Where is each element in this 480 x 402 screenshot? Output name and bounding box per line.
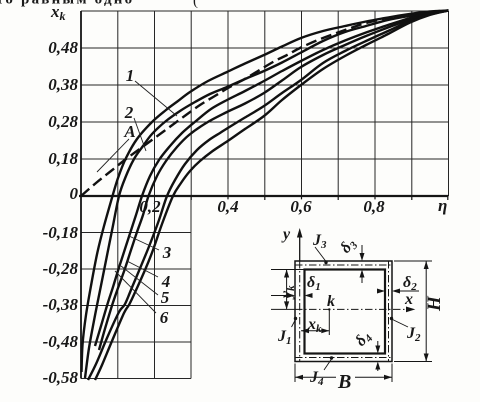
svg-text:-0,28: -0,28 [43, 259, 79, 278]
y axis value labels [43, 38, 79, 387]
svg-text:0,4: 0,4 [217, 197, 238, 216]
svg-text:0: 0 [70, 184, 79, 203]
x-axis eta [79, 195, 449, 197]
curve 6 [95, 11, 449, 381]
cropped text line at very top [0, 0, 198, 9]
inset labels [277, 226, 445, 393]
B dimension [295, 364, 392, 383]
axes [79, 11, 449, 379]
k point dot [328, 308, 330, 310]
svg-text:то равным одно: то равным одно [0, 0, 134, 8]
svg-text:H: H [424, 295, 445, 312]
svg-text:B: B [337, 371, 351, 393]
J dots on walls [324, 261, 327, 264]
axis ticks [191, 196, 448, 200]
box section outer wall [295, 261, 392, 362]
x axis centerline through k [295, 308, 406, 310]
svg-text:y: y [281, 226, 291, 243]
x axis extension left of box for y_k dim [271, 308, 295, 310]
leader line 6 [115, 271, 156, 313]
delta3 dimension arrows [361, 245, 363, 259]
delta4 dimension arrows [377, 341, 379, 352]
svg-text:η: η [438, 196, 447, 215]
grid group [81, 11, 449, 379]
svg-text:-0,58: -0,58 [43, 368, 79, 387]
wire: right frame [448, 11, 450, 196]
J leader lines [315, 247, 326, 262]
curve number labels [123, 66, 171, 327]
right wall centerline [388, 261, 390, 362]
curve A dashed [81, 11, 449, 197]
svg-text:-0,18: -0,18 [43, 223, 79, 242]
delta2 dimension arrows [394, 290, 419, 292]
svg-text:0,48: 0,48 [48, 38, 78, 57]
y axis of inset [299, 232, 301, 261]
delta1 dimension arrows [271, 295, 293, 297]
wire: upper grid verticals [118, 11, 412, 196]
bottom wall centerline [295, 357, 392, 359]
wall centerlines dash-dot [295, 261, 406, 362]
top wall centerline [295, 264, 392, 266]
curve 4 [99, 11, 449, 351]
curve 3 [95, 11, 449, 347]
curve 1 [82, 11, 449, 373]
svg-text:0,6: 0,6 [290, 197, 312, 216]
box section inner wall [305, 270, 386, 354]
svg-text:5: 5 [161, 288, 170, 307]
svg-text:3: 3 [162, 243, 172, 262]
svg-text:k: k [327, 293, 335, 310]
svg-text:-0,38: -0,38 [43, 295, 79, 314]
leader line 4 [127, 261, 158, 277]
extension from inner top surface to left [271, 269, 305, 271]
x_k dimension [301, 309, 329, 335]
svg-text:0,38: 0,38 [48, 75, 78, 94]
svg-text:0,8: 0,8 [363, 197, 385, 216]
leader line 2 [134, 118, 146, 151]
svg-text:0,18: 0,18 [48, 149, 78, 168]
leader line 5 [121, 266, 158, 295]
x axis value labels [139, 197, 385, 216]
wire: lower grid verticals [118, 196, 191, 379]
svg-text:-0,48: -0,48 [43, 332, 79, 351]
leader line 1 [135, 81, 177, 116]
H dimension [394, 261, 432, 362]
leader line A [97, 139, 129, 172]
wire: lower grid horizontals [81, 233, 191, 379]
curve 2 [85, 11, 449, 379]
svg-text:x: x [404, 291, 413, 308]
svg-text:(: ( [193, 0, 198, 9]
left wall centerline [299, 261, 301, 362]
svg-text:0,28: 0,28 [48, 112, 78, 131]
x axis arrow of inset [406, 307, 415, 313]
wire: upper grid horizontals [81, 11, 449, 159]
svg-text:6: 6 [160, 308, 169, 327]
svg-text:1: 1 [126, 66, 135, 85]
svg-text:A: A [123, 122, 135, 141]
curve 5 [88, 11, 449, 381]
svg-text:2: 2 [124, 103, 134, 122]
y-axis [80, 11, 82, 379]
leader line 3 [129, 236, 159, 250]
y_k dimension [286, 270, 288, 310]
